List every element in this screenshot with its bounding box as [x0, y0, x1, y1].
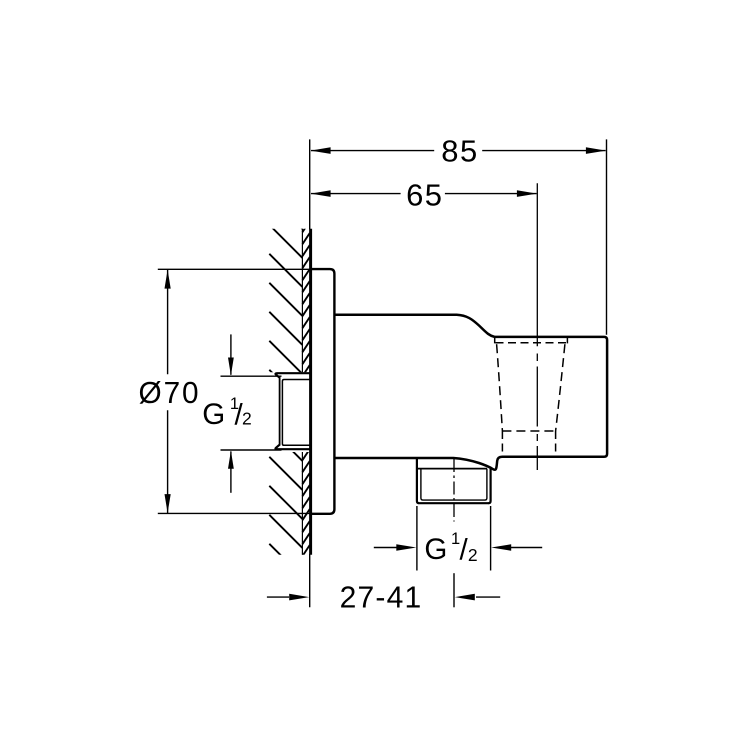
svg-text:65: 65 — [406, 177, 443, 212]
inlet dim bottom arrow — [230, 451, 232, 492]
label G1/2 bottom — [424, 530, 477, 566]
inlet thread outer bottom — [275, 445, 309, 449]
svg-text:27-41: 27-41 — [340, 580, 423, 615]
svg-text:G: G — [424, 533, 447, 566]
dim 85 extension line right — [606, 139, 608, 334]
outlet thread right edge — [488, 468, 490, 503]
hidden cone bottom edge — [502, 430, 555, 432]
svg-text:G: G — [202, 398, 225, 431]
wall finish hatch (dense band) — [302, 221, 309, 568]
inlet thread root top — [282, 380, 310, 446]
holder axis line — [536, 183, 538, 470]
svg-text:2: 2 — [242, 409, 252, 429]
label G1/2 left — [202, 395, 251, 432]
hidden cone right profile — [556, 344, 565, 431]
dim 85 line — [311, 150, 606, 152]
wall-face extension line (thin, above and below wall) — [309, 139, 311, 607]
hidden cone top edge — [496, 342, 567, 344]
svg-text:Ø70: Ø70 — [139, 375, 201, 410]
outlet dim left arrow — [374, 547, 397, 549]
outlet centerline (dash-dot) — [453, 456, 455, 522]
dim 27-41 right arrow — [476, 596, 500, 598]
dim 70 line — [167, 269, 169, 513]
dim 65 line — [311, 193, 537, 195]
holder socket opening ticks — [495, 338, 568, 344]
outlet collar line — [417, 468, 487, 470]
body top outline with ogee step — [335, 315, 607, 457]
outlet thread root lines — [421, 469, 487, 501]
inlet dim top arrow — [230, 334, 232, 374]
inlet thread outer top — [275, 373, 309, 377]
outlet dim extension lines — [417, 506, 491, 571]
inlet dim extension lines — [221, 376, 282, 450]
hidden cone left profile — [497, 344, 503, 431]
svg-text:85: 85 — [441, 134, 478, 169]
dim 27-41 extension line right — [453, 573, 455, 607]
dim 70 extension lines — [158, 269, 310, 513]
hidden bore sides — [502, 431, 555, 456]
escutcheon flange — [311, 269, 335, 514]
svg-text:2: 2 — [468, 545, 478, 565]
body bottom outline with shoulder into outlet nipple — [335, 457, 502, 470]
inlet thread end face — [279, 377, 281, 446]
outlet dim right arrow — [510, 547, 542, 549]
wall hatch (sparse 45-deg lines) — [269, 196, 302, 577]
wall face line (thick) — [309, 229, 312, 555]
outlet thread bottom — [419, 502, 490, 504]
wall finish boundary line — [301, 229, 303, 555]
dim 27-41 left arrow — [267, 596, 289, 598]
outlet thread left edge — [417, 459, 419, 504]
